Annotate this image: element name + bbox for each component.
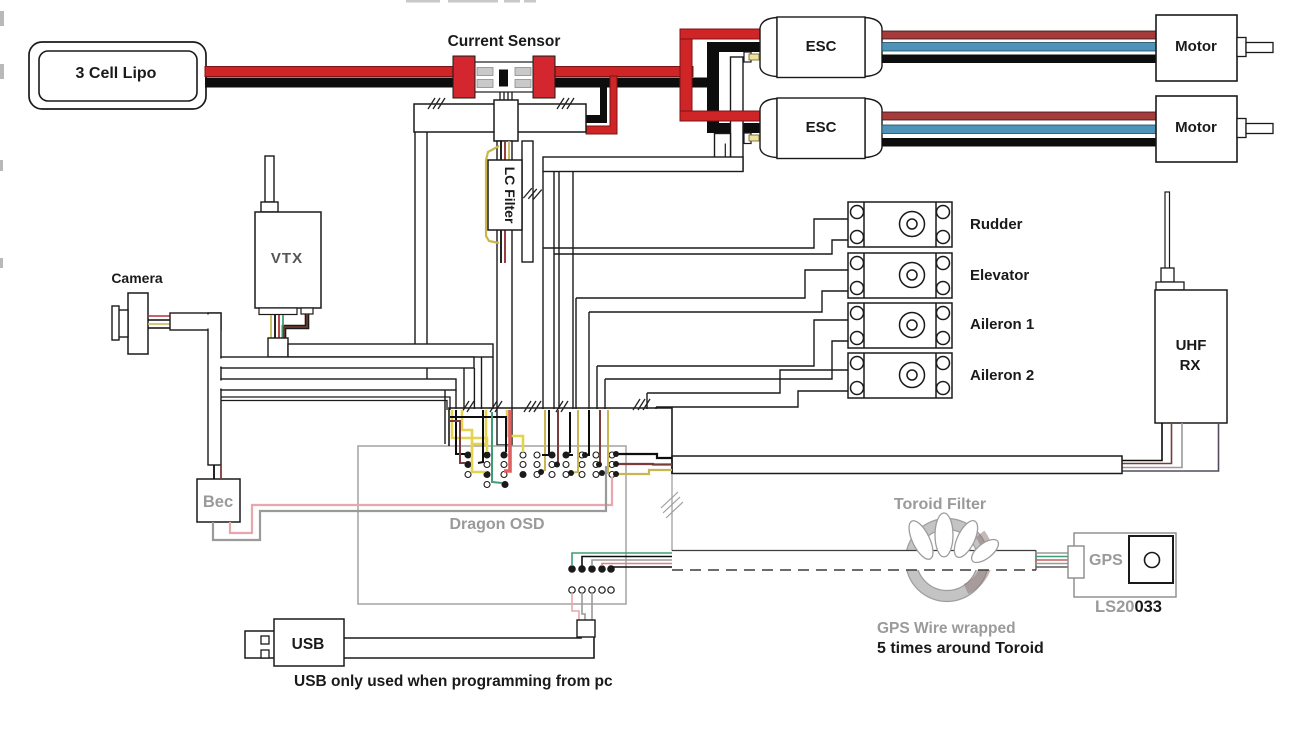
wire: black branch to ESC2 xyxy=(707,123,762,133)
svg-text:Camera: Camera xyxy=(111,270,163,286)
OSD pin grid xyxy=(465,452,615,488)
wire: red jog from sensor down to tube xyxy=(586,76,617,134)
motor 2 shaft xyxy=(1237,119,1246,138)
UHF RX wires down to tube xyxy=(1122,423,1219,471)
GPS bundle pins on OSD xyxy=(569,566,614,593)
tube: run A to header xyxy=(221,357,474,368)
tube: VTX bundle start xyxy=(268,338,288,357)
svg-text:USB: USB xyxy=(292,636,325,653)
tube: long servo/rx lead to OSD xyxy=(672,456,1122,474)
servo aileron 2 xyxy=(848,353,952,398)
VTX wires down xyxy=(284,314,307,340)
camera wires xyxy=(148,316,172,328)
hash on right column xyxy=(523,187,541,200)
motor 2 xyxy=(1156,96,1237,162)
current sensor center element xyxy=(499,70,508,87)
title remnant (cut off at top) xyxy=(406,0,536,3)
svg-text:Bec: Bec xyxy=(203,493,233,511)
wire: battery black negative lead xyxy=(205,78,719,88)
LC Filter box xyxy=(488,160,522,230)
svg-text:RX: RX xyxy=(1180,357,1201,374)
GPS connector xyxy=(1068,546,1084,578)
wire: red after sensor to ESC trunk xyxy=(551,67,693,77)
thin wires from tube-left down to tubes A/B xyxy=(415,132,427,380)
hash near OSD right xyxy=(661,492,683,518)
USB wires xyxy=(344,637,594,658)
svg-text:Aileron 2: Aileron 2 xyxy=(970,367,1034,384)
colored wires into left pin group xyxy=(452,410,523,472)
thin wire pair from camera to header xyxy=(221,397,450,410)
Bec gray output wire xyxy=(213,466,606,540)
current sensor red connector blocks xyxy=(453,56,475,98)
svg-text:ESC: ESC xyxy=(806,119,837,136)
Bec box xyxy=(197,479,240,522)
wire: battery red positive lead to sensor xyxy=(205,67,457,77)
OSD bottom pins to USB connector xyxy=(572,593,592,620)
servo rudder xyxy=(848,202,952,247)
wires visible above LC filter xyxy=(501,141,509,162)
current sensor body xyxy=(474,62,534,92)
hash on tube right xyxy=(557,98,574,109)
tube: camera bundle xyxy=(170,313,221,330)
current sensor pads xyxy=(477,68,531,88)
VTX antenna base xyxy=(261,202,278,212)
svg-text:Rudder: Rudder xyxy=(970,216,1023,233)
svg-text:LS20033: LS20033 xyxy=(1095,598,1162,616)
svg-text:Motor: Motor xyxy=(1175,38,1217,55)
svg-text:ESC: ESC xyxy=(806,38,837,55)
tube: camera down to Bec xyxy=(208,313,221,465)
yellow wire looping around LC filter xyxy=(486,146,499,243)
svg-text:LC Filter: LC Filter xyxy=(502,167,518,224)
VTX antenna rod xyxy=(265,156,274,202)
GPS wires after tube xyxy=(1036,553,1069,567)
svg-text:GPS Wire wrapped: GPS Wire wrapped xyxy=(877,620,1016,637)
motor 1 shaft xyxy=(1237,38,1246,57)
svg-text:Dragon OSD: Dragon OSD xyxy=(449,516,544,533)
ESC 2 body xyxy=(760,98,882,159)
Bec input wires xyxy=(213,465,215,479)
motor 1 xyxy=(1156,15,1237,81)
svg-text:Elevator: Elevator xyxy=(970,267,1029,284)
UHF RX body xyxy=(1155,290,1227,423)
servo signal wires xyxy=(543,219,848,409)
pin dots (filled) xyxy=(465,451,619,488)
GPS module outer xyxy=(1074,533,1176,597)
tube: sensor horizontal bundle xyxy=(414,104,586,132)
svg-text:VTX: VTX xyxy=(271,250,303,267)
ESC1 yellow connector xyxy=(749,54,759,60)
sensor bottom wires xyxy=(500,92,512,104)
svg-text:USB only used when programming: USB only used when programming from pc xyxy=(294,673,613,690)
svg-text:3 Cell Lipo: 3 Cell Lipo xyxy=(76,65,157,82)
VTX body xyxy=(255,212,321,308)
wires visible below LC filter xyxy=(501,228,505,263)
tube: sensor vertical cross xyxy=(494,100,518,141)
servo aileron 1 xyxy=(848,303,952,348)
tube: ESC leads to left and down xyxy=(543,157,743,172)
tube: VTX bundle to header xyxy=(288,344,493,357)
wire: black jog from sensor down to tube xyxy=(586,87,607,123)
camera body xyxy=(128,293,148,354)
motor2 wires red/blue/black xyxy=(882,112,1156,120)
ESC 1 body xyxy=(760,17,882,78)
svg-text:Toroid Filter: Toroid Filter xyxy=(894,496,986,513)
camera lens xyxy=(118,310,128,337)
svg-text:Current Sensor: Current Sensor xyxy=(448,33,561,50)
left edge marks xyxy=(0,11,4,268)
svg-text:GPS: GPS xyxy=(1089,552,1123,569)
tube: ESC1 lead down xyxy=(731,57,744,171)
GPS bundle wires from pins xyxy=(572,553,672,567)
USB plug xyxy=(245,631,275,658)
UHF RX antenna xyxy=(1165,192,1170,269)
tube: LC column right xyxy=(522,141,533,262)
colored wires into right pin group xyxy=(540,410,608,473)
svg-text:Aileron 1: Aileron 1 xyxy=(970,316,1034,333)
toroid ring xyxy=(911,524,983,596)
USB connector block xyxy=(577,620,595,637)
wire: black trunk vertical xyxy=(707,42,719,133)
tube: LC column left xyxy=(497,141,512,445)
tube: run B to OSD xyxy=(221,379,456,390)
battery 3 Cell Lipo xyxy=(29,42,206,109)
svg-text:Motor: Motor xyxy=(1175,119,1217,136)
wire: black branch to ESC1 xyxy=(707,42,762,52)
Bec pink output wire xyxy=(230,477,612,533)
hash on tube left xyxy=(428,98,445,109)
tube: GPS lead through toroid xyxy=(672,550,1036,570)
Dragon OSD board outline xyxy=(358,446,626,604)
toroid wire wraps xyxy=(904,513,1002,567)
motor1 wires red/blue/black xyxy=(882,31,1156,39)
wire: red branch to ESC1 xyxy=(680,29,762,39)
GPS inner square xyxy=(1129,536,1173,583)
wire: red trunk vertical xyxy=(680,29,692,121)
wire: red branch to ESC2 xyxy=(680,111,762,121)
tube: ESC2 lead down xyxy=(715,134,731,158)
svg-text:5 times around Toroid: 5 times around Toroid xyxy=(877,640,1044,657)
hash marks along header top xyxy=(462,401,474,412)
svg-text:UHF: UHF xyxy=(1176,337,1207,354)
wires from right pins to long tube xyxy=(616,454,672,474)
pin header outline xyxy=(449,408,672,474)
USB body xyxy=(274,619,344,666)
servo elevator xyxy=(848,253,952,298)
VTX bottom connector blocks xyxy=(259,308,297,315)
ESC2 yellow connector xyxy=(749,135,759,141)
